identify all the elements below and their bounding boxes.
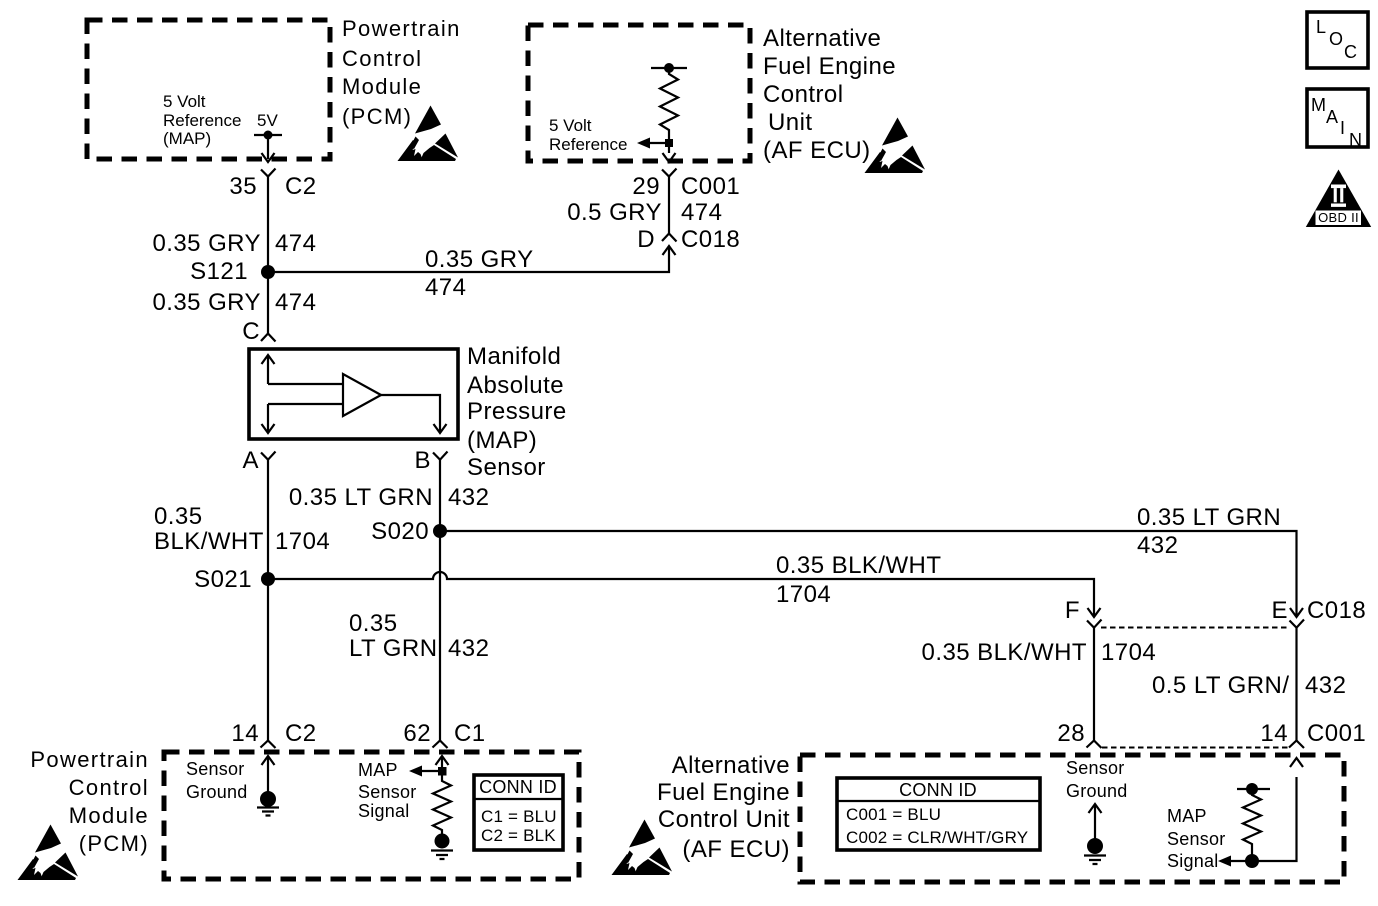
MAP signal node: square junction, left arrow, up arrow <box>438 767 447 776</box>
wire A: MAP pin A down to PCM pin 14 <box>267 460 269 741</box>
svg-text:BLK/WHT: BLK/WHT <box>154 528 264 555</box>
svg-text:C2: C2 <box>285 720 317 747</box>
svg-text:A: A <box>1326 107 1338 127</box>
svg-text:E: E <box>1272 597 1288 624</box>
svg-text:MAP: MAP <box>358 760 398 780</box>
svg-text:1704: 1704 <box>776 581 831 608</box>
C018 inline connector dashed line <box>1101 627 1290 629</box>
svg-text:C2 = BLK: C2 = BLK <box>481 826 556 845</box>
svg-text:432: 432 <box>1305 672 1346 699</box>
svg-text:Ground: Ground <box>1066 781 1128 801</box>
svg-text:(MAP): (MAP) <box>467 427 537 454</box>
svg-text:Absolute: Absolute <box>467 372 564 399</box>
ESD symbol (PCM bottom) <box>18 825 79 881</box>
svg-text:CONN ID: CONN ID <box>479 777 557 797</box>
svg-text:1704: 1704 <box>275 528 330 555</box>
svg-text:C001: C001 <box>1307 720 1366 747</box>
svg-text:C2: C2 <box>285 173 317 200</box>
pull-up resistor inside AF ECU <box>651 67 687 69</box>
wire: E down to 14 C001 <box>1295 628 1297 741</box>
svg-text:0.35 LT GRN: 0.35 LT GRN <box>289 484 433 511</box>
svg-text:14: 14 <box>231 720 259 747</box>
svg-text:C002 = CLR/WHT/GRY: C002 = CLR/WHT/GRY <box>846 828 1028 847</box>
svg-text:Signal: Signal <box>1167 851 1219 871</box>
svg-text:N: N <box>1349 130 1362 150</box>
wire: S020 to E (LT GRN) <box>440 531 1303 617</box>
svg-text:(PCM): (PCM) <box>79 831 149 856</box>
svg-text:35: 35 <box>229 173 257 200</box>
svg-text:C: C <box>242 318 260 345</box>
MAP sensor box <box>249 349 458 439</box>
svg-text:Fuel Engine: Fuel Engine <box>763 53 896 80</box>
svg-text:432: 432 <box>448 635 489 662</box>
svg-text:0.35 LT GRN: 0.35 LT GRN <box>1137 504 1281 531</box>
MAP signal resistor (AF ECU internal) <box>1237 788 1270 790</box>
svg-text:0.5 LT GRN/: 0.5 LT GRN/ <box>1152 672 1289 699</box>
svg-text:5 Volt: 5 Volt <box>549 116 592 135</box>
svg-text:Pressure: Pressure <box>467 398 567 425</box>
svg-text:1704: 1704 <box>1101 639 1156 666</box>
svg-text:B: B <box>415 447 431 474</box>
svg-text:Sensor: Sensor <box>467 454 546 481</box>
svg-text:0.35 GRY: 0.35 GRY <box>425 246 534 273</box>
svg-text:(PCM): (PCM) <box>342 104 412 129</box>
svg-text:I: I <box>1340 118 1345 138</box>
svg-text:Control: Control <box>342 46 422 71</box>
svg-text:Alternative: Alternative <box>672 752 790 779</box>
wire: 0.5 GRY 474 <box>668 177 670 234</box>
AF ECU (bottom) dashed box <box>800 755 1344 882</box>
sensor ground arrow + ground (AF ECU) <box>1089 804 1102 846</box>
resistor (PCM internal) <box>433 775 451 834</box>
svg-text:0.5 GRY: 0.5 GRY <box>567 199 662 226</box>
svg-text:(AF ECU): (AF ECU) <box>763 137 871 164</box>
wire B: MAP pin B down to PCM pin 62 <box>439 460 441 741</box>
svg-text:474: 474 <box>275 230 316 257</box>
svg-text:Signal: Signal <box>358 801 410 821</box>
svg-text:Sensor: Sensor <box>1066 758 1125 778</box>
svg-text:Fuel Engine: Fuel Engine <box>657 779 790 806</box>
svg-text:Control: Control <box>69 775 149 800</box>
wire: S021 to F (BLK/WHT) with hop over wire B <box>268 572 1101 617</box>
svg-text:0.35 BLK/WHT: 0.35 BLK/WHT <box>922 639 1087 666</box>
svg-text:D: D <box>637 226 655 253</box>
MAIN box icon <box>1307 89 1368 147</box>
PCM (top) dashed box <box>87 20 330 159</box>
ESD symbol (AF ECU top) <box>865 118 926 174</box>
svg-text:Alternative: Alternative <box>763 25 881 52</box>
svg-text:Control: Control <box>763 81 844 108</box>
svg-text:14: 14 <box>1260 720 1288 747</box>
svg-text:Ground: Ground <box>186 782 248 802</box>
svg-text:C1: C1 <box>454 720 486 747</box>
5V supply symbol <box>254 135 282 159</box>
svg-text:C1 = BLU: C1 = BLU <box>481 807 557 826</box>
C001 inline connector dashed line <box>1102 747 1288 749</box>
svg-text:62: 62 <box>403 720 431 747</box>
wire: D to S121 horizontal <box>663 246 676 255</box>
svg-text:Powertrain: Powertrain <box>342 16 461 41</box>
svg-text:0.35 GRY: 0.35 GRY <box>152 289 261 316</box>
wire: pin35 to S121 <box>267 177 269 334</box>
sensor ground arrow + ground (PCM) <box>262 756 275 799</box>
svg-text:474: 474 <box>425 274 466 301</box>
svg-text:0.35 GRY: 0.35 GRY <box>152 230 261 257</box>
svg-text:C001 = BLU: C001 = BLU <box>846 805 941 824</box>
svg-text:432: 432 <box>1137 532 1178 559</box>
CONN ID table (AF ECU) <box>837 778 1040 850</box>
svg-text:F: F <box>1065 597 1080 624</box>
wire: F down to 28 <box>1093 628 1095 741</box>
svg-text:MAP: MAP <box>1167 806 1207 826</box>
svg-text:C001: C001 <box>681 173 740 200</box>
svg-text:LT GRN: LT GRN <box>349 635 438 662</box>
svg-text:Reference: Reference <box>163 111 241 130</box>
OBD II triangle icon <box>1306 170 1371 228</box>
PCM (bottom) dashed box <box>164 752 579 879</box>
svg-text:28: 28 <box>1057 720 1085 747</box>
svg-text:Module: Module <box>69 803 149 828</box>
svg-text:0.35 BLK/WHT: 0.35 BLK/WHT <box>776 552 941 579</box>
svg-text:Sensor: Sensor <box>186 759 245 779</box>
svg-text:L: L <box>1316 17 1326 37</box>
svg-text:C: C <box>1344 42 1357 62</box>
svg-text:S020: S020 <box>371 518 429 545</box>
svg-text:O: O <box>1329 29 1343 49</box>
svg-text:Sensor: Sensor <box>358 782 417 802</box>
svg-text:S021: S021 <box>194 566 252 593</box>
CONN ID table (PCM) <box>474 775 563 850</box>
AF ECU (top) dashed box <box>528 25 750 161</box>
svg-text:Sensor: Sensor <box>1167 829 1226 849</box>
svg-text:M: M <box>1311 95 1326 115</box>
svg-text:(AF ECU): (AF ECU) <box>682 836 790 863</box>
svg-text:474: 474 <box>275 289 316 316</box>
svg-text:5V: 5V <box>257 111 278 130</box>
LOC box icon <box>1307 12 1368 68</box>
svg-text:C018: C018 <box>681 226 740 253</box>
svg-text:474: 474 <box>681 199 722 226</box>
svg-text:0.35: 0.35 <box>349 610 398 637</box>
svg-text:(MAP): (MAP) <box>163 129 211 148</box>
wire: resistor node to connector 14 C001 <box>1230 758 1303 861</box>
svg-text:Powertrain: Powertrain <box>30 747 149 772</box>
MAP sensor internals <box>262 355 275 384</box>
svg-text:29: 29 <box>632 173 660 200</box>
svg-text:Module: Module <box>342 74 422 99</box>
svg-text:Reference: Reference <box>549 135 627 154</box>
svg-text:432: 432 <box>448 484 489 511</box>
svg-text:Control Unit: Control Unit <box>658 806 790 833</box>
svg-text:Unit: Unit <box>768 109 812 136</box>
svg-text:C018: C018 <box>1307 597 1366 624</box>
svg-text:0.35: 0.35 <box>154 503 203 530</box>
svg-text:Manifold: Manifold <box>467 343 561 370</box>
svg-text:A: A <box>243 447 259 474</box>
svg-text:OBD II: OBD II <box>1318 210 1359 225</box>
ESD symbol (PCM top) <box>398 106 459 162</box>
ESD symbol (AF ECU bottom) <box>612 820 673 876</box>
svg-text:S121: S121 <box>190 258 248 285</box>
svg-text:5 Volt: 5 Volt <box>163 92 206 111</box>
svg-text:CONN ID: CONN ID <box>899 780 977 800</box>
